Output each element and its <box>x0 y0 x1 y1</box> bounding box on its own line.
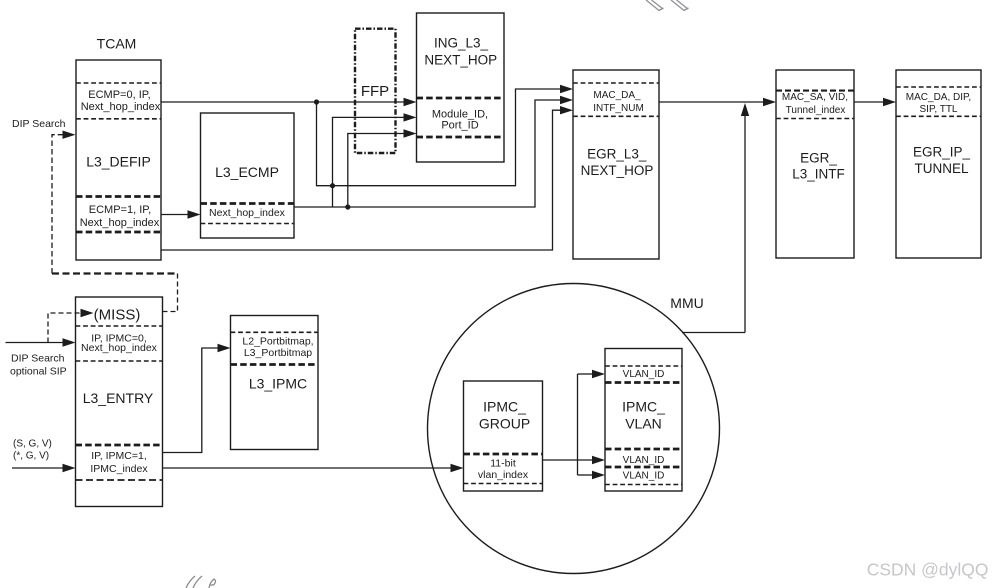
wire dashed into (MISS) <box>48 309 94 343</box>
scan artifact bottom-left marks <box>186 576 216 588</box>
svg-text:IPMC_: IPMC_ <box>483 399 526 415</box>
wire bottom stub into IPMC_VLAN <box>578 471 606 479</box>
wire ECMP=0 output to ING arrow1 <box>161 98 417 106</box>
wire branch up into ING arrow2 <box>333 113 417 207</box>
svg-text:11-bit: 11-bit <box>490 458 516 470</box>
box ING_L3_NEXT_HOP <box>417 13 505 162</box>
wire L3_ECMP next_hop output across, up into EGR arrow2 <box>294 96 573 207</box>
svg-text:IPMC_: IPMC_ <box>622 399 665 415</box>
svg-text:CSDN @dylQQ: CSDN @dylQQ <box>867 560 989 580</box>
svg-text:NEXT_HOP: NEXT_HOP <box>424 52 497 67</box>
svg-text:L3_DEFIP: L3_DEFIP <box>86 154 151 170</box>
junction dot on ECMP=0 line <box>314 99 319 104</box>
label MMU <box>670 295 703 311</box>
wire riser from ECMP=0 down, right, up into EGR arrow1 <box>317 85 574 186</box>
svg-text:vlan_index: vlan_index <box>478 469 529 481</box>
svg-text:Next_hop_index: Next_hop_index <box>81 342 158 354</box>
svg-text:ING_L3_: ING_L3_ <box>434 36 489 51</box>
svg-text:SIP, TTL: SIP, TTL <box>920 104 958 115</box>
svg-text:NEXT_HOP: NEXT_HOP <box>581 163 654 178</box>
svg-text:L2_Portbitmap,: L2_Portbitmap, <box>242 336 313 348</box>
svg-text:VLAN_ID: VLAN_ID <box>623 455 665 466</box>
svg-text:Next_hop_index: Next_hop_index <box>209 207 286 219</box>
box EGR_L3_NEXT_HOP <box>573 70 659 259</box>
svg-text:FFP: FFP <box>361 83 389 100</box>
svg-text:VLAN_ID: VLAN_ID <box>623 369 665 380</box>
wire L3_ENTRY to L3_IPMC <box>163 344 231 453</box>
svg-text:INTF_NUM: INTF_NUM <box>593 103 644 114</box>
svg-text:MMU: MMU <box>670 295 703 311</box>
box L3_DEFIP (TCAM table) <box>76 60 161 260</box>
svg-text:EGR_: EGR_ <box>800 151 837 166</box>
box EGR_L3_INTF <box>776 70 854 258</box>
svg-text:IPMC_index: IPMC_index <box>90 463 148 475</box>
box L3_ECMP <box>201 113 295 238</box>
svg-text:L3_ENTRY: L3_ENTRY <box>83 390 154 406</box>
wire EGR_L3_NEXT_HOP to EGR_L3_INTF <box>659 98 776 106</box>
wire MMU circle to riser <box>682 332 745 334</box>
svg-text:MAC_DA, DIP,: MAC_DA, DIP, <box>906 92 971 103</box>
svg-text:Tunnel_index: Tunnel_index <box>786 105 846 116</box>
svg-text:VLAN: VLAN <box>625 416 662 432</box>
svg-text:GROUP: GROUP <box>479 416 530 432</box>
MMU circle <box>428 284 720 574</box>
svg-text:optional SIP: optional SIP <box>10 366 67 378</box>
wire MMU riser up to intf line (up arrow) <box>741 103 749 333</box>
label DIP Search (top-left) <box>12 118 66 130</box>
svg-text:L3_ECMP: L3_ECMP <box>215 164 279 180</box>
svg-text:ECMP=1, IP,: ECMP=1, IP, <box>89 204 151 216</box>
box IPMC_GROUP <box>464 381 543 491</box>
label TCAM <box>97 36 137 52</box>
box FFP (dash-dot border) <box>355 29 396 153</box>
svg-text:Next_hop_index: Next_hop_index <box>81 101 161 113</box>
svg-text:TCAM: TCAM <box>97 36 137 52</box>
box L3_IPMC <box>231 316 319 450</box>
box IPMC_VLAN <box>605 349 682 492</box>
svg-text:MAC_SA, VID,: MAC_SA, VID, <box>782 92 848 103</box>
wire branch up into ING arrow3 <box>348 129 417 207</box>
svg-text:(S, G, V): (S, G, V) <box>13 439 52 450</box>
box EGR_IP_TUNNEL <box>896 70 981 258</box>
svg-text:DIP Search: DIP Search <box>11 353 65 365</box>
svg-text:(MISS): (MISS) <box>94 307 141 324</box>
watermark CSDN @dylQQ <box>867 560 989 580</box>
svg-text:TUNNEL: TUNNEL <box>914 161 968 176</box>
svg-text:MAC_DA_: MAC_DA_ <box>593 90 641 101</box>
wire vertical distribution line <box>577 374 579 475</box>
svg-text:EGR_L3_: EGR_L3_ <box>587 147 647 162</box>
svg-text:DIP Search: DIP Search <box>12 118 66 130</box>
svg-text:VLAN_ID: VLAN_ID <box>623 471 665 482</box>
wire DIP search optional SIP arrow into L3_ENTRY <box>6 338 76 346</box>
wire L3_ENTRY IPMC_index to IPMC_GROUP <box>163 464 464 472</box>
svg-text:Next_hop_index: Next_hop_index <box>80 217 160 229</box>
wire SGV arrow into L3_ENTRY <box>12 464 76 472</box>
wire TCAM bottom output across, up into EGR arrow3 <box>161 106 573 250</box>
svg-text:ECMP=0, IP,: ECMP=0, IP, <box>88 89 150 101</box>
label (S,G,V) (*,G,V) <box>13 439 52 462</box>
wire dashed DIP Search into L3_DEFIP <box>52 131 76 274</box>
junction dot on 185.7 line <box>330 183 335 188</box>
wire dashed vertical down to (MISS) row <box>163 274 178 312</box>
wire ECMP=1 row to L3_ECMP <box>161 210 201 218</box>
label DIP Search optional SIP <box>10 353 67 378</box>
wire IPMC_GROUP to IPMC_VLAN middle arrow <box>543 456 606 464</box>
svg-text:L3_IPMC: L3_IPMC <box>249 376 307 392</box>
wire EGR_L3_INTF to EGR_IP_TUNNEL <box>854 98 896 106</box>
svg-text:L3_Portbitmap: L3_Portbitmap <box>244 347 312 359</box>
svg-text:L3_INTF: L3_INTF <box>792 167 845 182</box>
wire top stub into IPMC_VLAN <box>578 370 606 378</box>
svg-text:IP, IPMC=1,: IP, IPMC=1, <box>91 450 147 462</box>
junction dot on ECMP line <box>345 204 350 209</box>
svg-text:EGR_IP_: EGR_IP_ <box>913 145 971 160</box>
wire dashed heavy horizontal (miss path) <box>52 272 178 274</box>
box L3_ENTRY <box>76 297 163 507</box>
svg-text:Port_ID: Port_ID <box>441 120 478 132</box>
scan artifact top hatch marks <box>646 0 689 11</box>
svg-text:(*, G, V): (*, G, V) <box>13 451 49 462</box>
